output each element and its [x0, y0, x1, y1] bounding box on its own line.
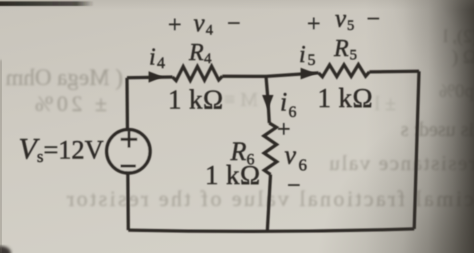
svg-text:4: 4	[206, 23, 214, 39]
arrow i5	[301, 68, 317, 80]
svg-text:i: i	[280, 88, 287, 117]
svg-text:5: 5	[347, 18, 354, 34]
svg-text:4: 4	[204, 51, 212, 67]
shadow overlays	[365, 0, 474, 253]
wire: bottom	[128, 229, 414, 231]
photo artifact: bottom-left corner smudge	[0, 246, 11, 253]
resistor R6 zigzag	[264, 123, 277, 175]
svg-text:+: +	[307, 12, 321, 38]
photo artifact: top-left dark bar	[0, 1, 94, 6]
svg-text:+: +	[168, 13, 182, 39]
wire: middle branch upper	[266, 76, 269, 123]
svg-text:+: +	[277, 117, 291, 143]
wire: middle branch lower	[267, 175, 270, 232]
wire: left side	[127, 78, 128, 230]
svg-text:Vs=12V: Vs=12V	[19, 133, 104, 167]
svg-text:1 kΩ: 1 kΩ	[168, 85, 223, 115]
wire: top right segment	[369, 70, 419, 74]
svg-text:± 20%: ± 20%	[32, 91, 107, 116]
current arrows	[149, 68, 317, 110]
wire: top, left corner to R4	[127, 75, 173, 79]
ghost show-through text (mirrored)	[5, 26, 474, 211]
arrow i6	[262, 95, 273, 110]
voltage source Vs	[107, 130, 150, 173]
wire: right side	[414, 71, 419, 229]
svg-text:R: R	[188, 40, 204, 66]
svg-text:4: 4	[157, 55, 165, 72]
arrow i4	[149, 71, 164, 82]
svg-text:R: R	[333, 36, 349, 62]
svg-text:( Mega Ohm: ( Mega Ohm	[5, 65, 123, 90]
svg-text:−: −	[227, 11, 241, 37]
svg-text:1 kΩ: 1 kΩ	[205, 160, 260, 190]
svg-text:v: v	[194, 10, 206, 37]
resistor R5 zigzag	[319, 65, 370, 77]
wire: top middle segment	[222, 73, 318, 77]
resistor R4 zigzag	[173, 66, 223, 80]
svg-text:M ≡: M ≡	[224, 89, 258, 111]
photo artifact: left edge line	[0, 60, 2, 253]
svg-text:i: i	[149, 45, 156, 71]
svg-text:v: v	[285, 141, 297, 170]
svg-text:−: −	[287, 173, 301, 199]
circuit drawing	[127, 65, 419, 232]
